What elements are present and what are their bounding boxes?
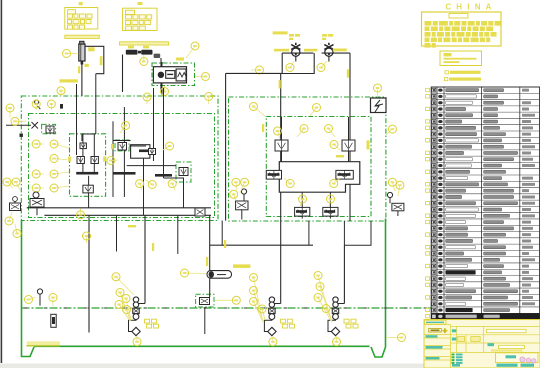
valve M1 text	[268, 173, 280, 176]
balloon fan2 c	[250, 298, 263, 321]
balloon 10b	[32, 170, 44, 178]
wire center vertical	[280, 74, 282, 246]
valve L1 text	[296, 210, 307, 213]
title teal sq b	[452, 338, 457, 341]
wire bus 2	[44, 214, 211, 216]
wire T1 drop	[204, 307, 206, 334]
wire L2 drop	[329, 192, 331, 207]
balloon 32	[230, 190, 238, 200]
balloon 15	[146, 180, 156, 189]
manifold block	[279, 162, 360, 193]
BOM rows content	[431, 88, 539, 319]
title bottom labels	[452, 364, 534, 367]
wire L2 down	[329, 216, 331, 219]
yellow mark P2b	[143, 46, 149, 49]
valve D2	[179, 168, 188, 176]
legend box 1 text	[68, 10, 93, 30]
yellow tick b	[85, 64, 89, 67]
strainer 3 labels	[344, 319, 358, 328]
balloon 41	[49, 294, 57, 307]
wire v 124	[123, 107, 125, 197]
pump P4 body	[324, 43, 333, 57]
balloon fan1 b	[122, 295, 131, 321]
balloon 21 motor	[374, 84, 382, 98]
balloon single left	[83, 232, 91, 243]
balloon fan1 c	[115, 301, 130, 322]
wire v 153	[153, 88, 155, 161]
valve row text	[114, 172, 136, 175]
valve M2 text	[338, 173, 351, 176]
yellow label inner box edge	[367, 140, 370, 149]
wire v 113	[112, 121, 114, 197]
title field bar	[491, 349, 523, 351]
valve D1	[149, 149, 156, 155]
legend box 2	[123, 8, 158, 30]
balloon 25	[297, 125, 308, 138]
balloon top edge b	[47, 100, 55, 110]
wire v 76	[76, 84, 78, 155]
green inner box A	[70, 134, 106, 197]
wire S1 drop	[281, 151, 283, 162]
left frame border	[1, 0, 3, 363]
balloon 37	[215, 296, 240, 304]
breather left	[236, 189, 248, 220]
wire pumps top left	[282, 52, 313, 54]
strainer 3 element	[331, 327, 339, 335]
balloon 1 pump P1	[63, 50, 79, 58]
balloon 28	[284, 178, 294, 188]
valve M1	[266, 170, 281, 179]
valve L1	[295, 207, 310, 216]
wire stub 178	[177, 215, 179, 254]
yellow tick c	[347, 69, 349, 77]
wire v 143	[143, 156, 145, 216]
logo sub box	[440, 51, 482, 66]
balloon top edge c	[57, 87, 65, 97]
fitting glyph a	[35, 100, 41, 109]
wire h 178	[164, 178, 184, 182]
balloon 31	[240, 178, 249, 193]
green box B	[42, 124, 56, 133]
yellow tick a	[100, 56, 103, 65]
balloon 26	[325, 125, 336, 138]
plug X	[32, 122, 39, 129]
title stamp box 2	[471, 337, 480, 342]
valve T1	[200, 298, 210, 305]
balloon 11b	[32, 184, 44, 192]
svg-text:CHINA: CHINA	[445, 3, 496, 12]
valve row text 2	[155, 174, 172, 177]
heater	[27, 341, 61, 346]
valve L2 text	[324, 210, 335, 213]
legend underline 1	[65, 35, 100, 38]
balloon 23	[310, 104, 321, 117]
wire pump1 top	[85, 46, 104, 73]
title teal label 1	[426, 335, 438, 337]
fitting glyph b	[60, 104, 63, 109]
wire upper left corner	[226, 73, 283, 220]
port square	[20, 134, 23, 137]
level gauge	[51, 314, 56, 327]
strainer 3 feed stub	[336, 303, 345, 305]
wire right main vertical	[349, 53, 351, 221]
wire v 371	[344, 221, 371, 245]
pump P4 label	[322, 34, 333, 40]
valve A1	[80, 143, 86, 149]
logo text block	[425, 21, 501, 48]
balloon 4 relief	[196, 73, 210, 81]
yellow bar pumps c	[333, 49, 347, 52]
green enclosure left	[21, 96, 218, 221]
balloon fan2 b	[250, 287, 264, 323]
logo inner top cell	[449, 14, 468, 19]
wire v 163	[163, 88, 165, 178]
valve C1	[118, 143, 127, 151]
balloon 38	[5, 212, 13, 225]
balloon 33	[388, 178, 396, 191]
wire h 150 inner	[129, 145, 146, 147]
yellow tick box A right	[103, 157, 106, 162]
title white field	[487, 329, 527, 332]
balloon 19 pump P3	[286, 61, 294, 72]
legend label above 1	[79, 2, 83, 5]
valve A3	[91, 157, 98, 164]
yellow mark relief	[176, 58, 184, 61]
legend box 1	[65, 8, 98, 30]
wire L1 drop	[301, 192, 303, 207]
yellow bar below pump1	[60, 79, 78, 82]
breather right	[387, 192, 404, 216]
BOM yellow item numbers	[426, 88, 430, 318]
title teal sq c	[488, 343, 495, 346]
yellow bar pumps a	[274, 49, 289, 52]
balloon fan1 e	[112, 273, 134, 295]
wire h 140	[113, 140, 131, 142]
green box C	[115, 140, 129, 151]
solenoid valve S2	[342, 140, 355, 151]
strainer 1 feed stub	[136, 303, 145, 305]
balloon tank right	[386, 334, 406, 342]
title logo cell	[429, 328, 448, 333]
yellow tick i	[206, 257, 208, 266]
balloon fan3 d	[322, 305, 332, 322]
wire h 134	[82, 133, 96, 135]
wire bus 1	[27, 207, 211, 209]
strainer 1 labels	[145, 319, 159, 328]
bottom window strip	[0, 364, 430, 368]
wire step	[282, 53, 314, 73]
yellow tick pump1 bottom	[78, 66, 80, 73]
legend underline 2	[120, 42, 169, 45]
balloon 10	[50, 170, 69, 178]
balloon L1	[299, 195, 307, 206]
strainer 1 stack	[133, 297, 139, 320]
yellow bar pumps b	[304, 49, 318, 52]
balloon 16	[120, 122, 130, 134]
wire strainer3 feed	[343, 245, 345, 303]
balloon 40	[25, 296, 37, 304]
yellow bar return	[233, 264, 250, 268]
balloon 20 pump P4	[317, 61, 327, 72]
yellow bar top middle	[273, 31, 288, 34]
valve N1	[195, 208, 205, 216]
strainer 2 pipe	[264, 320, 272, 332]
wire filter drop	[209, 215, 211, 297]
balloon 11	[50, 184, 69, 192]
yellow mark P2a	[128, 46, 134, 49]
valve A4	[83, 185, 93, 193]
balloon 30	[232, 178, 240, 190]
balloon 13	[107, 157, 118, 165]
pump P3 body	[291, 43, 300, 57]
yellow tick f	[224, 240, 226, 248]
strainer 2 stack	[269, 297, 275, 320]
title teal label 3	[426, 357, 440, 359]
valve left W1	[10, 197, 21, 211]
title bottom right box	[496, 353, 539, 363]
balloon 8b	[32, 140, 44, 148]
pump P1 body	[79, 41, 85, 64]
balloon 36 filter	[181, 269, 207, 277]
green box D	[176, 162, 191, 182]
valve A2	[77, 157, 84, 164]
green relief valve box	[152, 63, 195, 86]
wire S1 up	[281, 117, 283, 140]
title tab	[425, 320, 447, 324]
wire S2 drop	[348, 151, 350, 162]
wire A cluster	[83, 134, 94, 208]
wire pump1 outlet	[81, 65, 83, 97]
motor M1	[371, 98, 387, 113]
valve B1	[46, 126, 54, 133]
yellow tick d	[262, 124, 264, 132]
wire v 344	[343, 221, 345, 245]
yellow tick h	[152, 243, 154, 251]
strainer 2 labels	[280, 319, 294, 328]
wire stub 116	[116, 215, 118, 251]
balloon strainer 2	[269, 337, 277, 346]
green filter box	[196, 294, 214, 307]
wire v 93	[95, 74, 97, 134]
strainer 3 pipe	[328, 320, 336, 332]
manifold D	[131, 145, 150, 159]
tank outline	[22, 219, 386, 357]
yellow tick g	[128, 225, 136, 227]
balloon 12	[11, 117, 26, 125]
balloon gauge b	[12, 178, 20, 190]
balloon 8	[50, 140, 69, 148]
balloon 17	[205, 93, 213, 105]
wire L1 down	[301, 216, 303, 219]
logo note line 2	[444, 78, 481, 81]
strainer 2 feed stub	[272, 303, 281, 305]
balloon 22	[250, 103, 267, 118]
pump unit P2 bars	[126, 50, 160, 58]
balloon strainer 3	[333, 337, 341, 346]
title teal sq a	[452, 329, 457, 332]
valve L2	[323, 207, 338, 216]
title stamp box 1	[458, 337, 465, 342]
title teal label 2	[426, 346, 443, 349]
legend box 2 text	[126, 10, 152, 30]
strainer 1 element	[132, 327, 140, 335]
solenoid valve S1	[275, 140, 288, 151]
wire P2 left	[122, 55, 124, 93]
oil level line	[22, 307, 435, 309]
strainer 2 element	[268, 327, 276, 335]
pump P3 outlet	[295, 56, 297, 62]
wire pumps top right	[322, 52, 350, 54]
wire v 222	[221, 221, 223, 246]
wire strainer1 feed	[144, 215, 146, 303]
balloon strainer 1	[133, 337, 141, 346]
balloon fan2 a	[250, 274, 264, 323]
valve A text	[76, 172, 98, 175]
title field line	[499, 345, 525, 348]
wire suction left	[88, 215, 90, 332]
balloon 27	[330, 141, 340, 151]
balloon bus a	[136, 180, 144, 190]
title block grid	[424, 325, 540, 368]
balloon 6	[251, 66, 264, 74]
wire v 183 down	[183, 182, 185, 208]
yellow mark pump1 right	[88, 47, 94, 51]
wire S2 up	[348, 117, 350, 140]
wire strainer2 feed	[280, 245, 282, 303]
balloon 14	[77, 209, 85, 219]
balloon 7 port	[6, 104, 14, 118]
balloon 18	[163, 142, 174, 150]
title mini list	[452, 354, 463, 364]
yellow tick box A left	[68, 157, 71, 162]
balloon 5 relief	[161, 86, 169, 96]
balloon fan2 d	[258, 305, 266, 320]
pump P4 outlet	[328, 56, 330, 62]
balloon gauge a	[3, 178, 13, 188]
legend label above 2	[138, 2, 143, 5]
return filter F1	[207, 271, 232, 279]
valve M2	[336, 170, 353, 179]
green enclosure right	[229, 97, 386, 221]
oil level line dark dashes	[24, 307, 434, 309]
balloon fan3 a	[314, 272, 332, 323]
balloon 34	[396, 181, 404, 196]
balloon fan1 a	[116, 289, 130, 321]
balloon 35	[386, 125, 396, 135]
wire v 308	[308, 221, 310, 245]
logo sub box text	[444, 53, 477, 63]
balloon bus b	[168, 180, 176, 190]
balloon fan1 d	[123, 306, 132, 322]
wire P2 right	[160, 58, 162, 92]
wire h 161	[127, 165, 176, 167]
balloon 17b	[143, 93, 151, 104]
strainer 1 pipe	[129, 320, 137, 332]
yellow tick box C left	[111, 144, 113, 149]
balloon fan3 b	[316, 283, 332, 323]
wire lower bus	[210, 244, 313, 246]
yellow tick e	[336, 155, 344, 157]
gauge assembly left	[30, 192, 44, 215]
balloon 24	[274, 127, 282, 139]
balloon 39	[13, 224, 21, 238]
balloon L2	[327, 195, 335, 206]
relief valve V1	[153, 62, 186, 95]
balloon 3 relief	[186, 42, 199, 58]
breather tank left	[37, 289, 42, 306]
balloon top edge a	[32, 100, 40, 110]
yellow tick 280	[279, 80, 281, 88]
strainer 3 stack	[332, 297, 338, 320]
title block background	[424, 320, 540, 368]
wire v 82b	[81, 134, 83, 141]
green nested box left	[29, 114, 215, 218]
balloon 29	[330, 178, 340, 188]
balloon 9	[50, 155, 69, 163]
BOM table	[431, 87, 539, 320]
manifold D text	[139, 150, 153, 153]
wire left port	[6, 124, 31, 126]
logo outer box	[422, 12, 502, 46]
green inner box right	[266, 117, 371, 217]
logo note line 1	[445, 71, 481, 74]
balloon fan3 c	[314, 294, 331, 322]
balloon 2 pump P2	[140, 55, 148, 66]
pump P3 label	[289, 34, 300, 40]
